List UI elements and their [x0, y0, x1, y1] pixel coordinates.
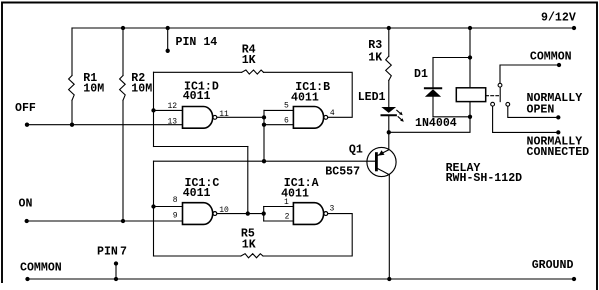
svg-text:COMMON: COMMON	[20, 262, 62, 275]
svg-text:D1: D1	[414, 68, 428, 81]
wire R2 leads	[122, 28, 124, 76]
wire relay NO terminal	[508, 107, 559, 118]
svg-text:COMMON: COMMON	[530, 51, 572, 64]
relay coil RWH-SH-112D	[456, 28, 498, 117]
resistor R1 10M	[69, 72, 105, 101]
resistor R5 1K	[241, 228, 263, 258]
junction IC1:B pin 6	[262, 123, 266, 127]
svg-text:LED1: LED1	[358, 91, 386, 104]
label NORMALLY CONNECTED	[527, 136, 590, 159]
relay contact NO	[506, 102, 510, 106]
resistor R4 1K	[242, 43, 264, 74]
wire relay common terminal	[500, 65, 559, 83]
wire ground/common bottom rail	[28, 278, 575, 280]
svg-text:10M: 10M	[131, 82, 152, 95]
svg-text:ON: ON	[19, 198, 33, 211]
wire PIN 14 stub	[167, 28, 169, 51]
svg-text:4011: 4011	[183, 187, 211, 200]
svg-text:10M: 10M	[83, 82, 104, 95]
svg-text:5: 5	[284, 101, 289, 110]
wire IC1:A input tee (pins 1,2)	[264, 207, 294, 222]
svg-text:R3: R3	[368, 39, 382, 52]
junction R1 / OFF wire	[70, 123, 74, 127]
svg-text:13: 13	[168, 117, 178, 126]
junction IC1:C out / pin12 net	[246, 211, 250, 215]
wire Q1 base net (to IC1:C pin 8 and R5 left)	[154, 161, 376, 256]
relay contact NC	[491, 102, 495, 106]
label RELAY RWH-SH-112D	[446, 162, 523, 185]
wire relay+D1 bottom to LED/Q1 node	[389, 117, 470, 133]
nand gate IC1:A 4011	[281, 177, 328, 224]
wire R5 right to IC1:A output pin 3	[263, 214, 352, 256]
svg-text:7: 7	[120, 246, 127, 259]
junction Q1 base wire	[262, 159, 266, 163]
junction IC1:C pin 8	[151, 204, 155, 208]
node NO terminal	[556, 115, 560, 119]
wire R3 leads	[388, 28, 390, 56]
svg-text:1K: 1K	[242, 54, 256, 67]
led LED1	[358, 91, 404, 132]
junction IC1:D pin 12	[151, 108, 155, 112]
transistor Q1 BC557	[325, 132, 396, 178]
svg-text:OPEN: OPEN	[527, 103, 555, 116]
junction R3 / V+	[387, 26, 391, 30]
wire ON input (IC1:C pin 9)	[27, 220, 183, 222]
wire IC1:C output pin 10	[217, 213, 264, 215]
junction D1 bottom / coil bottom	[468, 115, 472, 119]
svg-text:3: 3	[330, 204, 335, 213]
junction LED1 / Q1 emitter / relay coil bottom	[387, 130, 391, 134]
wire IC1:B input tee (pins 5,6) down to Q1 base net	[264, 110, 293, 161]
wire net IC1:D pin12 / IC1:C pin10 / R4 left	[154, 72, 248, 213]
svg-text:9: 9	[173, 211, 178, 220]
node GROUND terminal	[572, 277, 576, 281]
label NORMALLY OPEN	[527, 92, 583, 117]
svg-text:1: 1	[284, 198, 289, 207]
junction PIN14 stub / V+	[166, 26, 170, 30]
wire Q1 collector to ground rail	[388, 175, 390, 279]
diode D1 1N4004	[414, 58, 470, 130]
resistor R2 10M	[120, 72, 153, 101]
junction IC1:D out / IC1:B in vertical	[262, 115, 266, 119]
svg-text:9/12V: 9/12V	[541, 12, 576, 25]
nand gate IC1:C 4011	[183, 177, 220, 224]
junction Q1 collector / ground rail	[387, 277, 391, 281]
svg-text:12: 12	[168, 102, 178, 111]
nand gate IC1:D 4011	[183, 81, 219, 129]
svg-text:4011: 4011	[291, 91, 319, 104]
wire PIN 7 stub	[115, 264, 117, 280]
wire V+ top rail	[72, 27, 574, 29]
svg-text:4: 4	[330, 109, 335, 118]
junction D1 top / V+ branch	[468, 55, 472, 59]
node OFF terminal	[25, 123, 29, 127]
junction PIN7 stub / ground rail	[114, 277, 118, 281]
svg-text:8: 8	[173, 196, 178, 205]
junction relay-D1 / V+	[468, 26, 472, 30]
wire IC1:D output pin 11	[217, 116, 264, 118]
node COMMON contact terminal	[557, 63, 561, 67]
svg-text:OFF: OFF	[15, 102, 36, 115]
node ON terminal	[25, 219, 29, 223]
svg-text:PIN 14: PIN 14	[176, 36, 218, 49]
node NC terminal	[556, 130, 560, 134]
svg-text:4011: 4011	[183, 90, 211, 103]
svg-text:BC557: BC557	[325, 165, 360, 178]
svg-text:GROUND: GROUND	[532, 259, 574, 272]
svg-text:CONNECTED: CONNECTED	[527, 146, 590, 159]
svg-text:6: 6	[284, 117, 289, 126]
svg-text:1N4004: 1N4004	[415, 117, 457, 130]
junction R2 / V+	[121, 26, 125, 30]
wire R1 leads	[71, 28, 73, 76]
svg-text:PIN: PIN	[97, 246, 118, 259]
svg-text:1K: 1K	[368, 51, 382, 64]
relay contact pole (common)	[498, 83, 502, 101]
wire R4 right to IC1:B output pin 4	[264, 72, 353, 117]
svg-text:RWH-SH-112D: RWH-SH-112D	[446, 172, 523, 185]
node PIN 14	[166, 49, 170, 53]
svg-text:Q1: Q1	[349, 144, 363, 157]
node PIN 7	[114, 261, 118, 265]
svg-text:2: 2	[285, 213, 290, 222]
junction IC1:C out / IC1:A in vertical	[262, 211, 266, 215]
wire relay NC terminal	[493, 107, 559, 133]
nand gate IC1:B 4011	[291, 81, 330, 128]
resistor R3 1K	[368, 39, 391, 80]
node COMMON terminal	[25, 277, 29, 281]
svg-text:1K: 1K	[242, 239, 256, 252]
junction R2 / ON wire	[121, 219, 125, 223]
node 9/12V terminal	[572, 26, 576, 30]
wire OFF input (IC1:D pin 13)	[27, 124, 183, 126]
